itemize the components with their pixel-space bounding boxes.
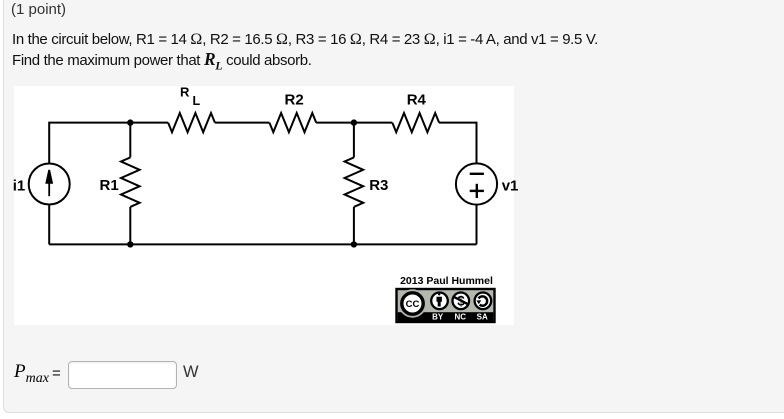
wire R2 to R4 xyxy=(316,122,392,124)
resistor R3 xyxy=(345,157,364,207)
badge BY NC SA labels xyxy=(432,313,488,322)
svg-text:L: L xyxy=(193,94,201,108)
node top-right junction dot xyxy=(351,119,357,125)
node top-left junction dot xyxy=(127,119,133,125)
branch R3 top wire xyxy=(353,123,355,158)
voltage source v1 circle xyxy=(456,163,497,204)
svg-text:NC: NC xyxy=(455,313,467,322)
svg-text:R3: R3 xyxy=(369,177,388,194)
wire bottom xyxy=(49,243,476,245)
svg-text:R: R xyxy=(180,85,190,100)
NC icon xyxy=(453,293,470,310)
circuit schematic xyxy=(14,86,514,325)
svg-text:CC: CC xyxy=(406,299,420,310)
wire left below i1 xyxy=(48,205,50,245)
svg-text:v1: v1 xyxy=(502,177,519,194)
svg-text:2013 Paul Hummel: 2013 Paul Hummel xyxy=(400,275,493,287)
resistor R2 xyxy=(269,113,316,132)
BY icon xyxy=(431,293,448,310)
branch R1 bottom wire xyxy=(129,207,131,245)
branch R3 bottom wire xyxy=(353,207,355,245)
wire R4 to right top corner xyxy=(439,123,476,164)
branch R1 top wire xyxy=(129,123,131,158)
svg-text:R1: R1 xyxy=(100,177,119,194)
svg-text:BY: BY xyxy=(432,313,444,322)
svg-text:i1: i1 xyxy=(13,177,26,194)
CC logo xyxy=(398,289,426,317)
CC license badge xyxy=(397,289,495,322)
svg-text:R4: R4 xyxy=(407,91,427,108)
node bottom-left junction dot xyxy=(127,241,133,247)
answer row xyxy=(14,361,49,387)
resistor RL xyxy=(168,113,215,132)
svg-text:SA: SA xyxy=(477,313,488,322)
wire top-left segment xyxy=(49,123,168,164)
wire right below v1 xyxy=(476,205,478,245)
resistor R4 xyxy=(392,113,439,132)
i1 arrow xyxy=(46,170,52,196)
v1 plus sign xyxy=(470,184,484,198)
resistor R1 xyxy=(121,157,140,207)
node bottom-right junction dot xyxy=(351,241,357,247)
wire RL to R2 xyxy=(215,122,270,124)
v1 minus sign xyxy=(470,173,484,175)
svg-text:R2: R2 xyxy=(285,92,304,109)
current source i1 circle xyxy=(29,164,70,205)
SA icon xyxy=(475,293,492,310)
